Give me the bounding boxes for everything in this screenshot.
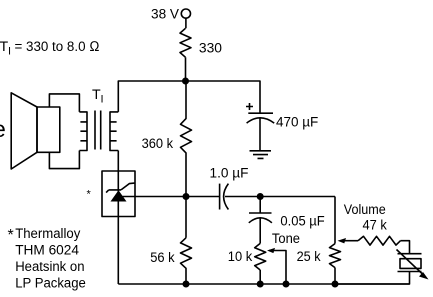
capacitor 0.05 µF [249, 212, 272, 214]
svg-text:0.05 µF: 0.05 µF [280, 213, 325, 229]
annotation text TI = 330 to 8.0 Ω [0, 39, 100, 58]
wire 25 k to ground rail [334, 268, 336, 284]
node supply junction dot [182, 78, 189, 85]
ground rail [118, 283, 409, 285]
wire capacitor 1.0 µF to node A [225, 196, 335, 198]
wire 10 k to ground rail [259, 270, 261, 284]
terminal 38 V [181, 9, 190, 18]
svg-text:47 k: 47 k [363, 217, 388, 233]
transformer TI secondary winding [110, 112, 118, 151]
svg-text:*: * [87, 189, 92, 201]
resistor 56 k [181, 238, 192, 284]
phono cartridge crystal body [400, 259, 421, 269]
svg-text:THM 6024: THM 6024 [15, 242, 79, 258]
node A junction dot [257, 193, 264, 200]
svg-text:1.0 µF: 1.0 µF [210, 166, 249, 182]
potentiometer 25 k wiper arm [344, 240, 358, 242]
svg-text:Thermalloy: Thermalloy [15, 226, 81, 242]
wire 47 k to cartridge [401, 241, 410, 254]
capacitor 470 µF [248, 112, 273, 114]
resistor 360 k [181, 81, 192, 197]
thyristor device (heatsinked, see footnote) [102, 171, 135, 217]
rail junction dot below tone wiper [283, 281, 290, 288]
wire supply node to capacitor 470 µF [186, 81, 261, 113]
wire capacitor 470 µF to ground [259, 118, 261, 151]
wire supply node to transformer secondary [118, 81, 185, 112]
svg-text:e: e [0, 116, 6, 142]
wire node A to potentiometer 25 k [334, 197, 336, 244]
potentiometer 25 k [330, 244, 341, 268]
svg-text:*: * [8, 227, 14, 244]
rail junction dot below 25 k [332, 281, 339, 288]
svg-text:I: I [101, 94, 104, 106]
svg-text:330: 330 [199, 40, 222, 56]
svg-text:Tone: Tone [272, 231, 300, 247]
svg-text:Heatsink on: Heatsink on [15, 259, 84, 275]
svg-text:LP Package: LP Package [15, 276, 86, 292]
wire speaker top to transformer primary [49, 94, 79, 112]
capacitor 470 µF polarity plus [246, 103, 253, 110]
svg-text:56 k: 56 k [150, 250, 175, 266]
wire terminal to resistor 330 [185, 18, 187, 28]
resistor 330 [180, 28, 191, 57]
speaker [11, 93, 37, 169]
svg-text:360 k: 360 k [142, 136, 174, 152]
potentiometer Tone 10 k [255, 243, 266, 270]
svg-text:= 330 to 8.0 Ω: = 330 to 8.0 Ω [15, 39, 100, 55]
rail junction dot below 56 k [183, 281, 190, 288]
ground [250, 151, 272, 159]
wire cartridge to ground rail [335, 272, 410, 285]
wire node G to resistor 56 k [185, 197, 187, 238]
transformer TI core [95, 111, 101, 150]
wire gate to node G [123, 196, 220, 198]
wire capacitor 0.05 µF to potentiometer 10 k [259, 218, 261, 243]
wire speaker bottom to transformer primary [49, 151, 79, 169]
resistor Volume 47 k [358, 236, 401, 245]
svg-text:38 V: 38 V [151, 6, 180, 22]
svg-text:25 k: 25 k [297, 249, 322, 265]
phono cartridge stylus arrow [397, 250, 424, 275]
svg-text:470 µF: 470 µF [276, 114, 319, 130]
node G junction dot [183, 193, 190, 200]
rail junction dot below 10 k [257, 281, 264, 288]
potentiometer 10 k wiper arm [269, 251, 286, 285]
svg-text:Volume: Volume [344, 202, 386, 218]
wire resistor 330 to supply node [185, 57, 187, 81]
svg-text:10 k: 10 k [228, 249, 253, 265]
capacitor 1.0 µF [219, 184, 221, 210]
wire node A to capacitor 0.05 µF [259, 197, 261, 214]
svg-text:I: I [8, 46, 11, 58]
phono cartridge plates [398, 254, 422, 272]
transformer TI primary winding [79, 112, 87, 151]
